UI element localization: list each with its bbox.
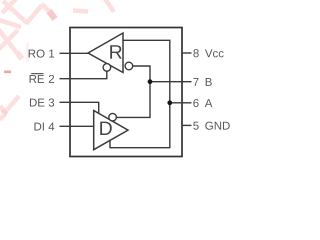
pin 5 wire: [182, 124, 192, 126]
red dash: [4, 71, 11, 74]
svg-text:DE: DE: [29, 97, 45, 109]
svg-text:GND: GND: [205, 121, 231, 133]
svg-text:4: 4: [48, 121, 55, 133]
junction dot A/pin6: [167, 100, 172, 105]
pin 1 wire RO: [60, 52, 89, 54]
svg-text:D: D: [99, 118, 113, 140]
net B wire: R inv bubble -> down -> pin7 -> down -> D bubble: [116, 66, 150, 117]
svg-text:RO: RO: [28, 48, 45, 60]
svg-text:7: 7: [193, 77, 199, 89]
label D (driver): [99, 118, 113, 140]
svg-text:B: B: [205, 77, 213, 89]
junction dot B/pin7: [148, 79, 153, 84]
watermark darker bits: [49, 11, 55, 19]
D inverting output bubble: [109, 113, 117, 121]
svg-text:RE: RE: [29, 74, 45, 86]
svg-text:A: A: [205, 98, 213, 110]
overline on RE: [31, 73, 43, 75]
pin 8 wire: [182, 52, 192, 54]
svg-text:R: R: [109, 42, 123, 64]
pin 7 wire B: [150, 81, 192, 83]
label R (receiver): [109, 42, 123, 64]
svg-text:8: 8: [193, 48, 199, 60]
svg-text:1: 1: [48, 48, 54, 60]
svg-text:DI: DI: [33, 121, 45, 133]
svg-text:Vcc: Vcc: [205, 48, 224, 60]
faint vertical strip: [26, 42, 29, 62]
pin 6 wire A: [170, 102, 192, 104]
svg-text:5: 5: [193, 121, 199, 133]
driver D triangle: [94, 111, 128, 150]
pin 2 wire RE: [60, 71, 107, 79]
net A wire: R top input -> down -> pin6 -> down -> D lower output: [110, 40, 170, 147]
watermark pink strokes: [0, 0, 114, 120]
svg-text:6: 6: [193, 98, 199, 110]
right pin labels: [193, 48, 231, 132]
IC body box: [70, 28, 182, 157]
svg-text:2: 2: [48, 74, 54, 86]
left pin labels: [28, 48, 56, 133]
pin 3 wire DE: [60, 102, 99, 114]
pin 4 wire DI: [60, 125, 94, 127]
R inverting input bubble: [125, 62, 133, 70]
svg-text:3: 3: [48, 97, 54, 109]
R enable bubble: [103, 64, 111, 72]
receiver R triangle: [88, 33, 123, 73]
